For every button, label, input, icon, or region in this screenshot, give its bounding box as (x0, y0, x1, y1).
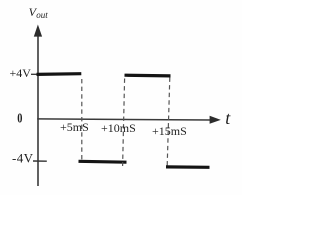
-4V tick (33, 160, 47, 162)
svg-text:+10mS: +10mS (101, 121, 136, 135)
waveform -4V segment 5-10mS (79, 160, 127, 164)
x-axis (37, 116, 221, 124)
waveform +4V segment 10-15mS (125, 74, 171, 78)
svg-text:t: t (225, 108, 231, 128)
svg-text:-4V: -4V (12, 151, 34, 166)
+4V tick (31, 73, 39, 75)
svg-text:+5mS: +5mS (60, 120, 89, 134)
svg-text:+15mS: +15mS (152, 124, 187, 138)
dashed line at 10mS (123, 79, 125, 167)
waveform +4V segment 0-5mS (37, 72, 82, 76)
svg-text:0: 0 (17, 110, 22, 126)
axis label Vout (29, 5, 49, 20)
svg-text:+4V: +4V (10, 66, 32, 80)
waveform -4V segment after 15mS (166, 165, 210, 169)
dashed line at 15mS (167, 78, 170, 166)
dashed line at 5mS (81, 79, 83, 160)
svg-text:out: out (36, 10, 48, 20)
y-axis (34, 25, 42, 187)
